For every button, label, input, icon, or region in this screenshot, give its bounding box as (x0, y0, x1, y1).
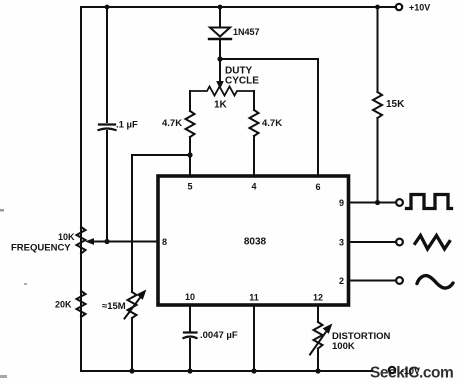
resistor 20K (55, 291, 86, 317)
power terminal +10V (396, 3, 430, 13)
node pin5 junction (187, 152, 192, 157)
capacitor .0047uF (184, 330, 238, 341)
wire D1 cathode (219, 39, 221, 59)
wire pin 8 to frequency pot (90, 241, 158, 243)
wiper arrowhead 1K (217, 82, 223, 89)
wire 4.7K left bottom (189, 137, 191, 155)
diode D1 1N457 (209, 27, 260, 39)
svg-text:≈15M: ≈15M (102, 301, 126, 312)
output terminal triangle (396, 239, 403, 246)
svg-text:11: 11 (249, 293, 259, 303)
svg-text:10K: 10K (58, 232, 75, 242)
IC U1 8038 (158, 176, 349, 305)
node top rail / D1 (218, 5, 223, 10)
triangle wave symbol (415, 236, 450, 250)
wire bottom rail (81, 370, 372, 372)
wire D1 anode (219, 7, 221, 27)
wire top rail (81, 6, 396, 8)
svg-text:4.7K: 4.7K (262, 118, 282, 129)
wire C1 bottom (106, 131, 108, 241)
svg-text:15K: 15K (386, 99, 405, 110)
node pin11 / bottom rail (251, 368, 256, 373)
wire left rail (80, 7, 82, 371)
svg-text:10: 10 (185, 292, 195, 302)
sine wave symbol (417, 276, 453, 288)
wire pin 11 (253, 305, 255, 371)
wire .0047 bottom (189, 339, 191, 371)
power terminal -10V (389, 366, 420, 376)
node pin9 / 15K (375, 200, 380, 205)
node 15M / bottom rail (129, 368, 134, 373)
wire pin 4 (253, 136, 255, 175)
potentiometer 1K DUTY CYCLE (190, 66, 259, 111)
wire 1K right end down (253, 91, 255, 110)
svg-text:9: 9 (339, 198, 344, 208)
svg-text:5: 5 (187, 182, 192, 192)
node top rail / C1 (105, 5, 110, 10)
svg-text:6: 6 (315, 182, 320, 192)
wire C1 top (106, 7, 108, 122)
resistor 15K (373, 92, 405, 118)
svg-text:1N457: 1N457 (233, 27, 260, 37)
svg-text:8038: 8038 (244, 237, 267, 248)
svg-text:8: 8 (162, 237, 167, 247)
node cap / bottom rail (187, 368, 192, 373)
wire 15K top (377, 7, 379, 92)
wire pin 12 (317, 305, 319, 322)
svg-text:CYCLE: CYCLE (225, 76, 259, 87)
svg-text:4: 4 (251, 182, 256, 192)
potentiometer 10K FREQUENCY (11, 227, 86, 254)
output terminal sine (396, 277, 403, 284)
svg-text:+10V: +10V (409, 3, 430, 13)
svg-text:4.7K: 4.7K (162, 118, 182, 129)
svg-text:2: 2 (339, 276, 344, 286)
node top rail / R15K (375, 5, 380, 10)
node C1 / pin8 wire (104, 239, 109, 244)
scan speck (0, 209, 4, 212)
svg-text:12: 12 (313, 293, 323, 303)
wire 15M bottom (131, 318, 133, 371)
svg-text:FREQUENCY: FREQUENCY (11, 243, 71, 254)
wire pin 3 output (349, 241, 396, 243)
wire 15K bottom (377, 118, 379, 203)
scan speck (24, 283, 27, 285)
svg-text:.1 µF: .1 µF (116, 120, 138, 131)
resistor 4.7K left (162, 111, 195, 137)
square wave symbol (407, 195, 452, 209)
svg-text:20K: 20K (55, 300, 72, 310)
capacitor C1 .1uF (99, 120, 139, 131)
svg-text:100K: 100K (332, 341, 355, 352)
wire pin 5 (189, 155, 191, 175)
wire pin 9 output (349, 202, 396, 204)
svg-text:SeekIC.com: SeekIC.com (370, 365, 453, 382)
wire pin 10 (189, 305, 191, 331)
wire junction to pin 6 (220, 59, 318, 175)
potentiometer 100K DISTORTION (310, 322, 391, 355)
wire pin 2 output (349, 280, 396, 282)
wire 15M branch down (131, 155, 133, 292)
wire 1K left end down (189, 91, 191, 111)
potentiometer 15M (102, 291, 146, 319)
resistor 4.7K right (250, 110, 283, 136)
wire wiper of 1K (219, 59, 221, 82)
output terminal square (396, 199, 403, 206)
node diode junction (217, 56, 222, 61)
node pin12 / bottom rail (315, 368, 320, 373)
svg-text:.0047 µF: .0047 µF (200, 330, 238, 341)
wire distortion bottom (317, 349, 319, 372)
svg-text:1K: 1K (214, 100, 228, 111)
wire junction to 15M branch (132, 154, 190, 156)
wiper arrowhead 10K (87, 239, 94, 244)
svg-text:3: 3 (339, 238, 344, 248)
scan speck (0, 375, 7, 378)
